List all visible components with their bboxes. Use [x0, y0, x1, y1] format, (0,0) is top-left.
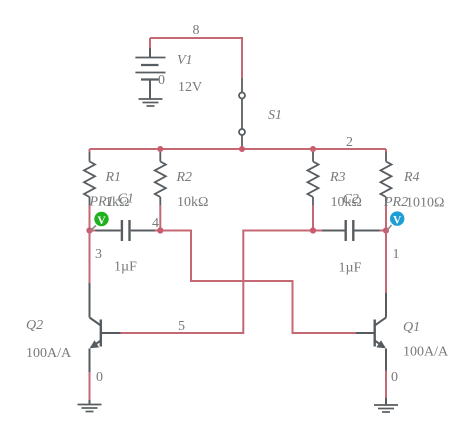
- wire node 3 to Q2 collector: [89, 231, 91, 284]
- wire R3 to node: [312, 205, 314, 231]
- wire net 4 cross-coupling: [160, 231, 356, 334]
- svg-text:1µF: 1µF: [339, 261, 362, 276]
- node dot 1: [383, 227, 389, 233]
- wire rail to R2: [159, 149, 161, 153]
- svg-text:C1: C1: [118, 192, 134, 207]
- wire rail to R3: [312, 149, 314, 153]
- svg-text:V: V: [97, 215, 106, 227]
- svg-text:100A/A: 100A/A: [26, 346, 72, 361]
- svg-text:Q2: Q2: [26, 318, 43, 333]
- wire C2 node to C2: [313, 230, 322, 232]
- wire Q2 emitter to ground: [89, 372, 91, 400]
- capacitor C1: [96, 220, 156, 241]
- ground (Q2): [78, 400, 102, 412]
- node dot 3: [86, 227, 92, 233]
- wire rail to R1: [89, 149, 91, 153]
- probe PR2: [387, 211, 404, 230]
- battery V1: [135, 48, 165, 99]
- svg-text:PR1: PR1: [89, 195, 114, 210]
- svg-text:0: 0: [158, 73, 165, 88]
- resistor R2: [155, 152, 166, 205]
- wire rail to R4: [385, 149, 387, 153]
- svg-text:PR2: PR2: [383, 195, 408, 210]
- capacitor C2: [322, 220, 380, 241]
- wire Q1 emitter to ground: [385, 371, 387, 399]
- svg-text:12V: 12V: [178, 80, 202, 95]
- svg-text:8: 8: [193, 23, 200, 38]
- ground (battery): [139, 99, 163, 106]
- wire C1 to node 4: [155, 230, 160, 232]
- svg-text:S1: S1: [268, 108, 282, 123]
- wire net 8 battery stub: [149, 38, 151, 48]
- node dot C2 left: [310, 227, 316, 233]
- wire net 8 top: [150, 38, 242, 78]
- wire node 3 to C1: [90, 230, 96, 232]
- svg-text:R4: R4: [403, 170, 420, 185]
- svg-text:0: 0: [96, 370, 103, 385]
- probe PR1: [91, 212, 109, 231]
- junction dot rail S1: [239, 146, 245, 152]
- svg-text:1: 1: [393, 247, 400, 262]
- switch S1: [239, 78, 245, 146]
- svg-text:5: 5: [178, 319, 185, 334]
- node dot 4: [157, 227, 163, 233]
- junction dot rail R3: [310, 146, 316, 152]
- svg-text:R2: R2: [176, 170, 193, 185]
- wire net 5 cross-coupling: [121, 231, 314, 334]
- svg-text:0: 0: [391, 370, 398, 385]
- wire node 1 to Q1 collector: [385, 231, 387, 294]
- ground (Q1): [374, 398, 398, 412]
- svg-text:3: 3: [95, 247, 102, 262]
- svg-text:R3: R3: [329, 170, 346, 185]
- svg-text:1010Ω: 1010Ω: [406, 195, 444, 210]
- transistor Q1: [356, 293, 386, 371]
- svg-text:1µF: 1µF: [114, 260, 137, 275]
- wire C2 to node 1: [380, 230, 387, 232]
- junction dot rail R2: [157, 146, 163, 152]
- resistor R3: [308, 152, 319, 205]
- svg-text:V1: V1: [177, 53, 193, 68]
- svg-text:10kΩ: 10kΩ: [177, 195, 208, 210]
- wire R1 to node 3: [89, 205, 91, 231]
- wire R4 to node 1: [385, 205, 387, 231]
- svg-text:2: 2: [346, 135, 353, 150]
- svg-text:C2: C2: [343, 192, 359, 207]
- wire net 2 rail: [90, 148, 387, 150]
- svg-text:Q1: Q1: [403, 320, 420, 335]
- resistor R4: [381, 152, 392, 205]
- wire R2 to node 4: [159, 205, 161, 231]
- svg-text:100A/A: 100A/A: [403, 345, 449, 360]
- wire switch to rail: [241, 146, 243, 149]
- svg-text:R1: R1: [105, 170, 122, 185]
- resistor R1: [84, 152, 95, 205]
- svg-text:V: V: [393, 214, 402, 226]
- transistor Q2: [90, 283, 121, 372]
